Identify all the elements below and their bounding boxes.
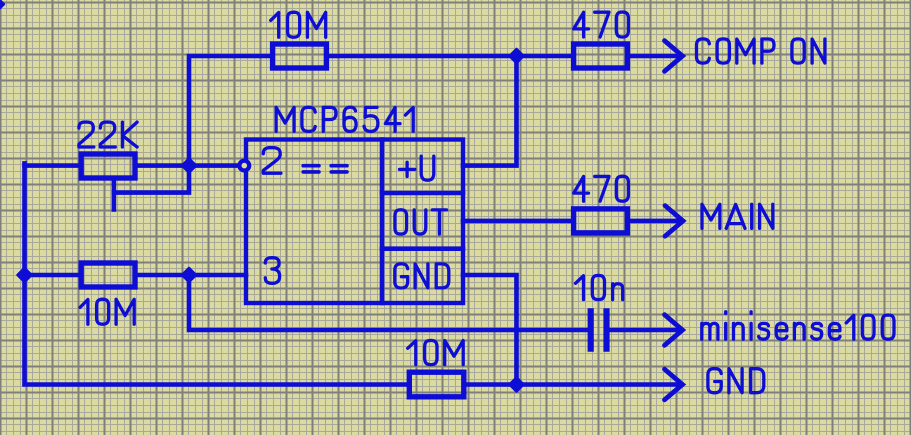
comparator symbol = = — [303, 166, 319, 172]
wire: OUT pin to 470 — [463, 219, 574, 224]
junction node: pin3 / sensor branch — [182, 268, 196, 282]
wire: bottom 10M to GND arrow — [464, 382, 681, 387]
label 10M (input) — [80, 299, 134, 324]
wire: left vertical up to top 10M — [189, 56, 273, 164]
resistor R 10M (bottom, sensor bleed) — [409, 372, 464, 397]
wire: top 470 to COMP ON arrow — [627, 54, 680, 59]
wire: wiper tie to inverting node — [114, 168, 189, 193]
capacitor C 10n plates — [588, 308, 594, 352]
wire: sensor branch down and right to capacitor — [189, 277, 587, 330]
wire: inverting input row from left rail to 22K — [25, 163, 82, 168]
wire: GND pin to right vertical down — [463, 275, 517, 383]
resistor R 470 (comparator output pullup) — [574, 44, 628, 68]
wire: 10M to junction to pin 3 — [135, 273, 246, 278]
wire: +U pin to top net vertical — [463, 58, 517, 166]
wire: 470 to MAIN arrow — [627, 219, 681, 224]
resistor R 10M (top feedback) — [273, 44, 327, 68]
label GND (rail) — [708, 369, 764, 393]
wire: left rail to 10M (input bias) — [25, 273, 82, 278]
origin marker dot top-left — [0, 1, 4, 8]
label MCP6541 — [276, 107, 413, 131]
wiper stub of 22K — [112, 178, 117, 209]
label COMP ON — [697, 39, 825, 63]
label pin 3 — [265, 258, 279, 284]
label 10M (top) — [271, 12, 326, 37]
op-amp U1 MCP6541 body — [246, 140, 463, 304]
trimmer R 22K — [81, 154, 135, 178]
label GND (U1) — [395, 264, 449, 288]
label pin 2 — [263, 148, 281, 174]
label 10M (bottom) — [408, 340, 464, 364]
arrow: minisense100 input — [665, 315, 683, 346]
label 10n — [576, 275, 623, 299]
left rail vertical wire — [25, 163, 410, 384]
arrow: COMP ON output — [665, 41, 683, 72]
wire: capacitor to minisense arrow — [610, 328, 681, 333]
label 470 (MAIN) — [574, 176, 629, 201]
label 22K — [79, 122, 137, 147]
junction node: left rail / pin3 row — [18, 268, 32, 282]
resistor R 470 (MAIN) — [574, 209, 628, 233]
arrow: GND rail — [665, 369, 683, 400]
label OUT — [395, 210, 447, 234]
U1 internal divider vertical — [380, 140, 385, 304]
U1 internal divider +U/OUT — [382, 191, 463, 196]
junction node: ground net — [510, 378, 524, 392]
wire: top 10M to 470 — [326, 54, 573, 59]
label MAIN — [702, 204, 773, 228]
wire: 22K to junction to pin 2 — [135, 163, 238, 168]
pin 2 inverting input circle — [239, 161, 249, 171]
label 470 (top) — [574, 12, 629, 37]
label minisense100 — [702, 312, 894, 339]
arrow: MAIN output — [665, 206, 683, 237]
label +U — [400, 156, 434, 180]
U1 internal divider OUT/GND — [382, 246, 463, 251]
junction node A: inverting input net — [182, 159, 196, 173]
junction node: top net / +U branch — [510, 49, 524, 63]
resistor R 10M (input) — [81, 263, 135, 287]
